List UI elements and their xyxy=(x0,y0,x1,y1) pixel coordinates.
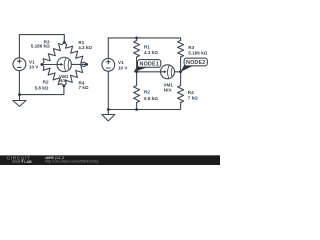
wire C2 branch1 top lead xyxy=(136,38,138,41)
node dot C2 ground junction xyxy=(107,108,110,111)
wire C2 branch2 middle xyxy=(180,57,182,86)
wire VM1 right lead xyxy=(71,63,86,65)
svg-text:R2: R2 xyxy=(43,79,49,84)
node dot C2 branch1 bottom xyxy=(135,108,138,111)
svg-text:N/A: N/A xyxy=(59,78,68,83)
resistor R1 (right circuit) xyxy=(134,41,140,58)
svg-text:R1: R1 xyxy=(144,44,150,49)
node flag NODE1 xyxy=(138,60,161,68)
svg-text:NODE1: NODE1 xyxy=(140,62,159,68)
wire C2 bottom xyxy=(108,103,180,110)
voltmeter VM1 (left circuit) xyxy=(57,57,71,71)
node dot C2 branch2 middle xyxy=(179,70,182,73)
resistor R2 (right circuit) xyxy=(134,86,140,103)
VM1 arrowhead xyxy=(61,63,64,66)
svg-text:5.8 kΩ: 5.8 kΩ xyxy=(35,86,49,91)
CircuitLab logo xyxy=(7,155,32,163)
wire C2 left upper xyxy=(107,38,109,59)
svg-text:R3: R3 xyxy=(188,45,194,50)
node dot C2 branch1 middle xyxy=(135,70,138,73)
resistor R4 (bridge bottom-right arm) xyxy=(64,64,87,86)
svg-text:5.186 kΩ: 5.186 kΩ xyxy=(31,44,50,49)
voltage source V1 (right circuit) xyxy=(102,58,115,71)
ground (right circuit) xyxy=(102,110,115,122)
resistor R1 (bridge top-right arm) xyxy=(64,42,86,64)
wire C2 top xyxy=(108,38,180,41)
svg-text:NODE2: NODE2 xyxy=(186,60,205,66)
watermark bar xyxy=(0,155,220,165)
wire C1 left lower xyxy=(18,71,20,95)
resistor R3 (right circuit) xyxy=(178,41,184,58)
svg-text:R2: R2 xyxy=(144,90,150,95)
voltmeter VM1 (right circuit) xyxy=(161,65,175,79)
node dot C1 ground junction xyxy=(18,93,21,96)
ground (left circuit) xyxy=(13,95,26,107)
resistor R2 (bridge bottom-left arm) xyxy=(42,65,64,86)
svg-text:5.186 kΩ: 5.186 kΩ xyxy=(188,51,207,56)
node dot C1 right vertex xyxy=(85,63,88,66)
svg-text:N/A: N/A xyxy=(164,87,173,92)
svg-text:5.8 kΩ: 5.8 kΩ xyxy=(144,96,158,101)
node dot C1 left vertex xyxy=(40,63,43,66)
svg-text:4.3 kΩ: 4.3 kΩ xyxy=(144,50,158,55)
svg-text:4.3 kΩ: 4.3 kΩ xyxy=(78,45,92,50)
svg-text:10 V: 10 V xyxy=(118,65,128,70)
node flag NODE2 xyxy=(184,58,207,66)
svg-text:7 kΩ: 7 kΩ xyxy=(188,95,198,100)
svg-text:10 V: 10 V xyxy=(29,65,39,70)
wire VM1 left lead xyxy=(42,64,57,66)
resistor R3 (bridge top-left arm) xyxy=(42,42,65,64)
wire C2 branch1 middle xyxy=(136,57,138,86)
node dot C2 branch1 top xyxy=(135,37,138,40)
wire VM1 right lead (right circuit) xyxy=(175,71,181,73)
resistor R4 (right circuit) xyxy=(178,86,184,103)
NODE2 flag pointer xyxy=(181,65,193,72)
svg-text:http://circuitlab.com/c/59b422: http://circuitlab.com/c/59b422d2g xyxy=(45,160,99,164)
wire C1 bottom xyxy=(20,86,64,95)
wire VM1 left lead (right circuit) xyxy=(137,71,161,73)
node dot C1 bottom vertex xyxy=(63,85,66,88)
VM1 arrowhead (right circuit) xyxy=(164,70,167,73)
wire C1 top xyxy=(19,35,64,43)
svg-text:7 kΩ: 7 kΩ xyxy=(79,85,89,90)
NODE1 flag pointer xyxy=(133,66,147,73)
svg-text:R4: R4 xyxy=(188,90,194,95)
wire C1 left upper xyxy=(18,35,20,58)
voltage source V1 (left circuit) xyxy=(13,58,26,71)
wire C2 branch1 bottom lead xyxy=(136,103,138,110)
svg-text:LAB: LAB xyxy=(24,160,32,164)
node dot C1 top vertex xyxy=(63,41,66,44)
wire C2 left lower xyxy=(107,71,109,109)
